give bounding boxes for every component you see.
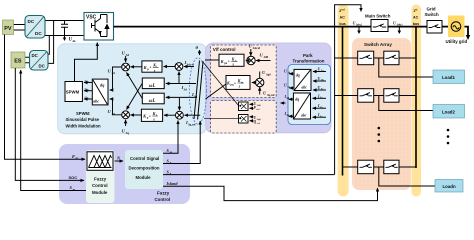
svg-text:3d,ref: 3d,ref — [187, 63, 196, 67]
svg-text:ref: ref — [257, 108, 260, 111]
svg-text:3d: 3d — [184, 88, 188, 92]
svg-text:3c: 3c — [87, 98, 89, 100]
wire: SPWM gate signal to VSC — [75, 43, 98, 82]
wire: U3q,ref into V2 — [259, 87, 261, 94]
wire: U3q0 into V2 — [259, 72, 261, 79]
svg-text:3d: 3d — [126, 53, 130, 57]
wire: 1st AC bus conductor — [415, 27, 417, 168]
svg-text:3q,ref: 3q,ref — [188, 123, 197, 127]
svg-text:Control: Control — [92, 183, 108, 188]
svg-text:s: s — [153, 68, 156, 73]
wire: ES converter output to lower rail — [48, 36, 49, 55]
wire: ES to DC/DC converter (two conductors) — [25, 57, 30, 62]
summing junction V2 — [256, 78, 264, 86]
block: PV source — [3, 20, 14, 35]
wire: Ses control to ES — [21, 70, 86, 191]
svg-text:Control: Control — [155, 197, 171, 202]
panel: Park / V-f lavender — [206, 43, 331, 133]
wire: SOC measurement from ES — [15, 68, 84, 180]
wires: dq voltage outputs — [289, 73, 294, 75]
svg-text:abc: abc — [93, 99, 99, 104]
block: SPWM — [65, 82, 82, 102]
block: PI controller d-axis — [142, 61, 162, 72]
summing junction S1 (d-axis voltage) — [122, 63, 130, 71]
summing junction V1 — [247, 56, 255, 64]
svg-text:SPWM:: SPWM: — [76, 111, 90, 116]
block: ref gen 1 — [239, 102, 249, 111]
wire: dq/abc to SPWM phase a — [84, 82, 92, 84]
svg-text:DC: DC — [28, 19, 35, 24]
svg-text:ωL: ωL — [149, 99, 156, 104]
svg-text:Fuzzy: Fuzzy — [157, 191, 170, 196]
svg-text:dq: dq — [296, 73, 300, 78]
panel: current control (SPWM) light blue — [58, 44, 207, 134]
wire: cross-couple wL lower to S1 — [127, 73, 143, 99]
svg-text:nd: nd — [341, 8, 345, 12]
block: control signal decomposition module — [125, 150, 163, 189]
block: Load1 — [433, 70, 465, 84]
svg-text:(abc): (abc) — [397, 24, 403, 27]
wire: AC main bus from VSC to grid — [114, 26, 372, 28]
svg-text:DC: DC — [32, 53, 39, 58]
wire: row2 load tap to Load2 — [379, 96, 433, 111]
svg-text:3d: 3d — [112, 71, 116, 75]
block: ref gen 2 — [239, 115, 249, 124]
wire: I3d,ref into S3 — [184, 66, 194, 68]
svg-text:Main Switch: Main Switch — [365, 14, 391, 19]
svg-text:SOC: SOC — [69, 175, 78, 180]
wire: ES converter output to upper rail — [48, 21, 54, 64]
wire: V1 to PI voltage d — [246, 60, 248, 62]
wire: row1 connections — [335, 57, 416, 59]
svg-text:3q,ref: 3q,ref — [267, 93, 276, 97]
switch: main switch — [371, 20, 388, 32]
switch: row2 left — [358, 89, 374, 103]
svg-text:Width Modulation: Width Modulation — [66, 124, 102, 129]
svg-text:abc: abc — [302, 86, 308, 90]
svg-text:bus: bus — [339, 22, 345, 26]
svg-text:Load1: Load1 — [442, 75, 455, 80]
wire: U3q into S2 — [125, 120, 127, 126]
svg-text:Loadn: Loadn — [443, 184, 456, 189]
wire: Su output to I3q,ref — [163, 121, 200, 164]
summing junction S4 (q-axis current) — [176, 111, 184, 119]
svg-text:AC: AC — [340, 16, 346, 20]
wire: PI d output into S1 — [131, 66, 142, 68]
wire: theta arrow into bundle — [199, 50, 201, 55]
node: Udc measurement arrow — [64, 36, 66, 38]
bus strip: 1st AC bus — [412, 5, 422, 197]
block: abc-dq current — [293, 93, 310, 119]
wire: I3d feedback to wL upper and S3 — [166, 83, 196, 85]
converter: DC/DC 1 (PV) — [25, 16, 45, 39]
svg-text:Module: Module — [136, 175, 152, 180]
IGBT symbol inside VSC — [92, 15, 110, 37]
wire: U3d0 into V1 — [250, 49, 252, 56]
svg-text:Grid: Grid — [427, 7, 436, 12]
svg-text:Module: Module — [92, 190, 108, 195]
svg-text:DC: DC — [39, 64, 46, 69]
wire: bundle to PI voltage d — [205, 59, 219, 61]
wire: ref gen 1 inputs — [250, 103, 254, 105]
svg-text:Load2: Load2 — [442, 109, 455, 114]
wire: I3q,ref into S4 — [185, 114, 201, 116]
svg-text:ES: ES — [14, 59, 22, 65]
wire: DC bus upper rail PV converter to VSC — [45, 20, 85, 22]
wire: S3 output into PI d — [164, 66, 176, 68]
wire: ref gen 2 inputs — [250, 116, 254, 118]
block: PI voltage d — [219, 54, 244, 66]
summing junction S2 (q-axis voltage) — [122, 111, 130, 119]
wire: row n connections — [343, 166, 417, 168]
svg-text:Control Signal: Control Signal — [130, 156, 159, 161]
svg-text:Switch: Switch — [425, 12, 439, 17]
switch: row1 right — [384, 51, 399, 64]
svg-text:Fuzzy: Fuzzy — [94, 177, 107, 182]
wire: PV to DC/DC converter (two conductors) — [14, 25, 26, 31]
block: PI voltage q — [226, 76, 250, 90]
capacitor C dc-link — [61, 21, 68, 36]
block: wL cross-coupling upper — [142, 78, 164, 89]
svg-text:V/f control: V/f control — [213, 47, 236, 52]
wire: dq/abc to SPWM phase b — [84, 90, 92, 92]
svg-text:PV: PV — [4, 26, 12, 32]
wire: ref gen 2 to bundle — [204, 118, 239, 120]
svg-text:Sinusoidal Pulse: Sinusoidal Pulse — [66, 117, 100, 122]
box: Park inner blue — [288, 65, 331, 125]
wire: row n load tap to Loadn — [379, 167, 435, 186]
wire: Ses output to S4 — [163, 121, 178, 154]
wire: main switch control from Sg — [335, 5, 361, 175]
svg-text:3d,ref: 3d,ref — [253, 46, 262, 50]
switch: row n left — [358, 160, 374, 174]
wire: DC bus lower rail PV converter to VSC — [45, 35, 85, 37]
wires: voltage abc inputs — [313, 71, 326, 73]
svg-text:SPWM: SPWM — [66, 90, 80, 95]
block: fuzzy membership icon — [86, 150, 115, 203]
panel: fuzzy control lavender — [59, 144, 190, 204]
wire: V2 to PI voltage q — [252, 82, 256, 84]
block: wL cross-coupling lower — [142, 93, 164, 104]
wire: Ppv measurement from PV — [5, 35, 86, 160]
block: utility grid — [448, 16, 465, 38]
block: PI controller q-axis — [141, 109, 162, 121]
svg-text:st: st — [415, 8, 417, 12]
wire: row2 connections — [335, 95, 416, 97]
wire: Sg output to main switch — [163, 174, 335, 176]
svg-text:ωL: ωL — [149, 84, 156, 89]
svg-text:ref: ref — [257, 122, 260, 125]
switch: row2 right — [384, 89, 399, 103]
wire: PI q output into S2 — [131, 114, 142, 116]
switch array grid texture — [355, 40, 409, 188]
panel: switch array peach — [352, 38, 411, 190]
converter: DC/DC 2 (ES) — [30, 51, 49, 71]
wire: dq/abc to SPWM phase c — [84, 98, 92, 100]
svg-text:Island: Island — [166, 181, 179, 186]
summing junction S3 (d-axis current) — [175, 63, 183, 71]
signal bundle dashed ellipse — [189, 58, 206, 124]
wire: S2 output to dq/abc — [110, 99, 123, 115]
switch: row n right — [384, 160, 399, 174]
block: dq/abc inverse transform — [92, 79, 108, 105]
svg-text:abc: abc — [301, 114, 307, 118]
wire: bundle to PI voltage q — [206, 84, 227, 99]
block: ES source — [11, 52, 25, 68]
svg-text:3q: 3q — [126, 131, 130, 135]
svg-text:Park: Park — [303, 53, 313, 58]
box: V/f control dashed — [211, 45, 277, 98]
wires: current abc inputs — [313, 97, 327, 99]
svg-text:bus: bus — [413, 22, 419, 26]
wire: row1 load tap to Load1 — [379, 58, 433, 77]
converter: VSC — [84, 13, 114, 41]
switch: grid switch — [427, 21, 442, 34]
block: abc-dq voltage — [294, 69, 311, 90]
bus strip: 2nd AC bus — [338, 5, 349, 197]
box: reference generator dashed — [211, 101, 277, 134]
wire: U3d into S1 — [125, 56, 127, 62]
switch: row1 left — [358, 51, 374, 64]
svg-text:3q0: 3q0 — [266, 73, 271, 77]
wire: 2nd AC bus conductor — [342, 27, 344, 176]
svg-text:dq: dq — [295, 97, 299, 102]
wire: ref gen 1 to bundle — [203, 62, 239, 106]
block: Loadn — [435, 180, 463, 193]
wire: N fuzzy module to decomposition — [115, 160, 124, 162]
node: Uabc tap right arrow — [398, 28, 400, 31]
svg-text:AC: AC — [413, 16, 419, 20]
wire: S1 output to dq/abc — [110, 67, 123, 90]
wire: U3d,ref into V1 — [256, 60, 271, 62]
node: array ellipsis dots — [378, 127, 450, 145]
node: grid arrow down — [466, 35, 470, 40]
svg-text:3q: 3q — [112, 112, 116, 116]
svg-text:Utility grid: Utility grid — [446, 39, 468, 44]
svg-text:Transformation: Transformation — [293, 59, 325, 64]
wire: cross-couple wL upper to S2 — [127, 83, 143, 109]
signal bundle slant lines — [194, 61, 203, 120]
svg-text:Switch Array: Switch Array — [364, 42, 392, 47]
svg-text:DC: DC — [35, 31, 42, 36]
wires: dq current outputs — [289, 98, 294, 100]
wire: Park dq outputs to reference generator — [281, 102, 286, 104]
wire: Island output to switch array — [163, 186, 378, 200]
node: Uabc tap left arrow — [358, 28, 360, 31]
wire: S4 output into PI q — [164, 114, 176, 116]
svg-text:3d0: 3d0 — [264, 55, 269, 59]
svg-text:(abc): (abc) — [356, 24, 362, 27]
svg-text:dc: dc — [73, 39, 77, 43]
svg-text:s: s — [152, 117, 155, 122]
svg-text:Decomposition: Decomposition — [129, 166, 160, 171]
wire: I3q feedback to wL lower and S4 — [166, 96, 196, 98]
block: Load2 — [433, 105, 465, 119]
